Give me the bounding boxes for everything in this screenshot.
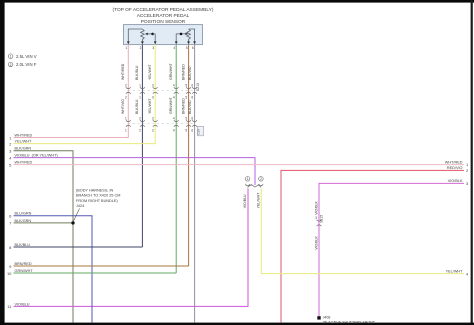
svg-text:3: 3 [152,84,154,88]
svg-text:WHT/RED: WHT/RED [15,161,33,165]
svg-text:YEL/WHT: YEL/WHT [257,192,261,208]
svg-text:S213: S213 [196,83,200,91]
svg-text:2: 2 [125,84,127,88]
svg-text:BLU/GRN: BLU/GRN [15,212,32,216]
note body harness [76,189,120,209]
svg-text:(TOP OF ACCELERATOR PEDAL ASSE: (TOP OF ACCELERATOR PEDAL ASSEMBLY) [113,7,214,13]
wire BLK/BLU sensor segment [141,45,143,247]
splice J424 dot [71,221,74,224]
pin arrow 5 [187,41,190,44]
svg-text:ACCELERATOR PEDAL: ACCELERATOR PEDAL [137,13,190,19]
svg-text:(IN ACTIVE SHUTTERS FRONT: (IN ACTIVE SHUTTERS FRONT [323,320,376,324]
splice J408 [317,316,320,319]
svg-text:5: 5 [185,84,187,88]
legend item 2 [8,62,36,67]
svg-text:FROM RIGHT BUNDLE): FROM RIGHT BUNDLE) [76,199,118,203]
wire GRN/WHT sensor segment [175,45,177,273]
connector row 1 dashed link [128,90,194,92]
wire VIO/BLU left pin 4 run [14,158,256,185]
svg-text:BLK/BLU: BLK/BLU [15,243,31,247]
svg-text:VIO/BLU: VIO/BLU [243,194,247,208]
wire YEL/WHT to left pin 2 [14,143,156,145]
svg-text:4: 4 [173,95,175,99]
pin arrow 3 [154,41,157,44]
wire WHT/RED sensor segment [127,45,129,138]
svg-text:GRN/WHT: GRN/WHT [15,269,34,273]
potentiometer 2 top leg to pin 6 [189,29,195,42]
svg-text:BLK/BLU: BLK/BLU [135,65,139,80]
pin arrow 1 [127,41,130,44]
wire BRN/RED sensor segment [188,45,190,266]
svg-text:2: 2 [139,128,141,132]
svg-text:6: 6 [191,95,193,99]
svg-text:YEL/WHT: YEL/WHT [446,269,464,273]
wire BLU/GRN left pin 6 run [14,216,93,323]
accelerator pedal position sensor box [124,25,203,45]
wire VIO/BLU fork to pin 11 [14,188,249,306]
pin arrow 2 [141,41,144,44]
svg-text:WHT/VIO: WHT/VIO [121,99,125,114]
svg-text:1: 1 [125,128,127,132]
svg-text:2: 2 [140,46,142,50]
potentiometer 1 wiper arrow [145,33,153,36]
connector row 1 pin numbers [125,84,193,100]
svg-text:3: 3 [152,117,154,121]
svg-text:4: 4 [173,84,175,88]
svg-text:WHT/RED: WHT/RED [15,133,33,137]
svg-text:VIO/BLU (OR YEL/WHT): VIO/BLU (OR YEL/WHT) [15,154,59,158]
svg-text:BRN/RED: BRN/RED [181,64,185,80]
svg-text:1: 1 [10,55,12,59]
wire WHT/RED left pin 5 to right pin 1 [14,164,465,166]
potentiometer 2 wiper junction dot [180,33,183,36]
svg-text:3: 3 [315,216,317,220]
potentiometer 1 wiper leg to pin 3 [153,34,156,42]
svg-text:2: 2 [125,95,127,99]
svg-text:BLK/GRN: BLK/GRN [15,219,32,223]
legend item 1 [8,54,36,59]
connector row 2 dashed link [128,123,194,125]
svg-text:VIO/BLK: VIO/BLK [314,201,318,215]
option fork terminal 2 [259,177,264,186]
svg-text:4: 4 [173,128,175,132]
svg-text:1: 1 [139,95,141,99]
potentiometer 1 wiper junction dot [151,33,154,36]
svg-text:C29: C29 [197,129,201,135]
wire BRN/RED pin 9 run [14,265,189,267]
wire YEL/WHT sensor segment [154,45,156,144]
svg-text:BLK/BLU: BLK/BLU [135,99,139,114]
svg-text:6: 6 [191,117,193,121]
svg-text:BRANCH TO X420 25 CM: BRANCH TO X420 25 CM [76,194,120,198]
sensor pin numbers [126,46,194,50]
svg-text:2: 2 [260,177,262,181]
pin arrow 6 [193,41,196,44]
wire YEL/WHT fork to right pin 4 [261,188,464,273]
svg-text:RED/VIO: RED/VIO [447,166,463,170]
svg-text:2: 2 [10,63,12,67]
wire BLK/GRN left pin 3 run [14,151,74,323]
svg-text:1: 1 [126,46,128,50]
svg-text:YEL/WHT: YEL/WHT [15,140,33,144]
svg-text:5: 5 [185,128,187,132]
svg-text:5: 5 [185,95,187,99]
wire BLK/GRN left pin 7 run [14,222,74,224]
wire WHT/RED to left pin 1 [14,137,129,139]
note leader line [74,209,80,221]
svg-text:1: 1 [139,84,141,88]
inline connector on VIO/BLK [317,220,322,226]
svg-text:5: 5 [185,117,187,121]
svg-text:3: 3 [152,46,154,50]
svg-text:VIO/BLU: VIO/BLU [15,302,30,306]
svg-text:BLK/VIO: BLK/VIO [188,100,192,114]
connector row 2 id box [197,126,204,135]
potentiometer 1 supply leg pin 1 [128,29,142,42]
potentiometer 2 wiper leg pin 4 [176,34,185,42]
svg-text:1: 1 [247,177,249,181]
svg-text:4: 4 [173,46,175,50]
potentiometer 2 wiper arrow [185,33,188,36]
page border left [0,0,5,325]
svg-text:VIO/BLK: VIO/BLK [448,179,463,183]
svg-text:S215: S215 [320,215,324,223]
wire RED/VIO right pin 2 run [281,170,464,322]
svg-text:6: 6 [191,128,193,132]
pin arrow 4 [175,41,178,44]
svg-text:2: 2 [139,117,141,121]
svg-text:YEL/WHT: YEL/WHT [148,64,152,80]
svg-text:10: 10 [7,271,12,276]
wire BLK/VIO sensor segment [194,45,196,323]
svg-text:GRN/WHT: GRN/WHT [169,62,173,80]
svg-text:VIO/BLK: VIO/BLK [314,236,318,250]
option fork terminal 1 [245,177,250,186]
page border right [471,0,473,325]
svg-text:1: 1 [125,117,127,121]
svg-text:YEL/WHT: YEL/WHT [148,98,152,114]
svg-text:3: 3 [152,128,154,132]
svg-text:J424: J424 [76,204,84,208]
wire BLK/BLU pin 8 run [14,246,143,248]
svg-text:4: 4 [173,117,175,121]
svg-text:WHT/RED: WHT/RED [445,160,463,164]
svg-text:6: 6 [192,46,194,50]
svg-text:(BODY HARNESS, IN: (BODY HARNESS, IN [76,189,114,193]
potentiometer 1 resistor [141,29,145,42]
svg-text:6: 6 [191,84,193,88]
page border bottom [0,323,474,325]
svg-text:3: 3 [152,95,154,99]
connector row 2 pin numbers [125,117,193,133]
svg-text:BLK/VIO: BLK/VIO [188,66,192,80]
option fork branches [248,185,261,188]
svg-text:BRN/RED: BRN/RED [15,262,32,266]
svg-text:2.0L VIN F: 2.0L VIN F [16,62,37,67]
wire VIO/BLK right pin 3 run [319,183,464,317]
svg-text:2.5L VIN V: 2.5L VIN V [16,54,37,59]
svg-text:J408: J408 [323,316,331,320]
svg-text:5: 5 [186,46,188,50]
svg-text:BLK/GRN: BLK/GRN [15,147,32,151]
page border top [0,0,474,3]
wire GRN/WHT pin 10 run [14,272,177,274]
svg-text:BRN/RED: BRN/RED [181,98,185,114]
sensor title [113,7,214,25]
svg-text:WHT/RED: WHT/RED [121,63,125,80]
connector row 1 symbols [126,87,197,93]
connector row 2 symbols [126,120,197,126]
potentiometer 2 resistor [187,29,191,42]
